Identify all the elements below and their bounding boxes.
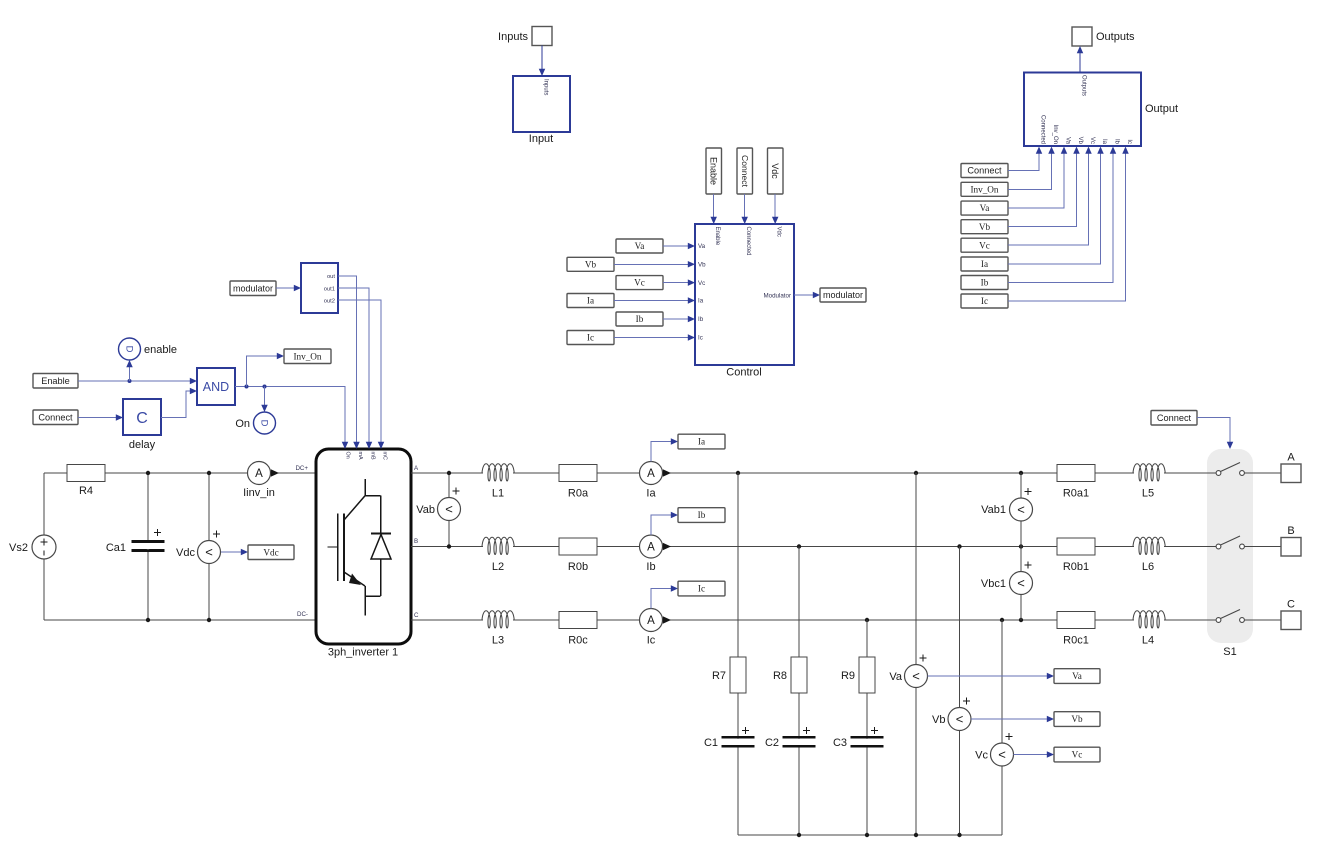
svg-text:<: <: [956, 712, 964, 727]
svg-text:<: <: [1017, 502, 1025, 517]
svg-text:<: <: [912, 669, 920, 684]
svg-text:Va: Va: [889, 671, 903, 683]
svg-text:C2: C2: [765, 737, 779, 749]
svg-text:Ib: Ib: [636, 314, 644, 324]
svg-text:<: <: [998, 747, 1006, 762]
svg-text:Vbc1: Vbc1: [981, 578, 1006, 590]
svg-text:A: A: [647, 468, 655, 480]
svg-text:R0b: R0b: [568, 561, 588, 573]
svg-text:Ib: Ib: [981, 278, 989, 288]
svg-text:R0c: R0c: [568, 635, 588, 647]
svg-text:Vb: Vb: [979, 222, 991, 232]
svg-text:Ib: Ib: [698, 316, 704, 323]
svg-text:Inputs: Inputs: [543, 79, 549, 95]
svg-text:Inputs: Inputs: [498, 31, 528, 43]
svg-text:Enable: Enable: [709, 157, 719, 185]
svg-text:Ia: Ia: [698, 437, 705, 447]
svg-text:out2: out2: [324, 299, 335, 305]
svg-text:Vab1: Vab1: [981, 504, 1006, 516]
svg-text:A: A: [647, 615, 655, 627]
svg-text:R0a1: R0a1: [1063, 488, 1089, 500]
svg-text:Va: Va: [698, 243, 706, 250]
svg-text:Enable: Enable: [41, 376, 70, 386]
svg-text:Vdc: Vdc: [775, 227, 781, 237]
svg-text:Vc: Vc: [979, 240, 990, 250]
svg-text:Ib: Ib: [646, 561, 655, 573]
svg-text:Vc: Vc: [634, 278, 645, 288]
svg-text:Ia: Ia: [1101, 139, 1107, 145]
svg-text:Control: Control: [726, 367, 761, 379]
svg-text:Ia: Ia: [981, 259, 988, 269]
svg-text:Vc: Vc: [975, 750, 988, 762]
svg-text:Connect: Connect: [1157, 413, 1192, 423]
svg-text:A: A: [255, 468, 263, 480]
svg-text:Ic: Ic: [698, 584, 705, 594]
svg-text:Vb: Vb: [1071, 714, 1083, 724]
svg-text:Vdc: Vdc: [770, 163, 780, 179]
svg-text:Connected: Connected: [1040, 115, 1046, 144]
svg-text:Ic: Ic: [1126, 139, 1132, 144]
svg-text:Connect: Connect: [967, 166, 1002, 176]
svg-text:Va: Va: [980, 203, 990, 213]
svg-text:Ic: Ic: [647, 635, 656, 647]
svg-text:Ca1: Ca1: [106, 542, 126, 554]
svg-text:mC: mC: [382, 452, 388, 460]
svg-text:out: out: [327, 274, 335, 280]
svg-text:mB: mB: [370, 452, 376, 460]
svg-text:3ph_inverter 1: 3ph_inverter 1: [328, 647, 398, 659]
svg-text:R8: R8: [773, 670, 787, 682]
svg-text:out1: out1: [324, 287, 335, 293]
svg-text:enable: enable: [144, 344, 177, 356]
svg-text:Va: Va: [1072, 671, 1082, 681]
svg-text:Connect: Connect: [38, 412, 73, 422]
svg-text:D: D: [258, 420, 269, 427]
svg-text:Vb: Vb: [585, 259, 597, 269]
svg-text:Input: Input: [529, 133, 553, 145]
svg-text:Ia: Ia: [646, 488, 656, 500]
svg-text:modulator: modulator: [233, 283, 273, 293]
svg-text:C: C: [1287, 599, 1295, 611]
svg-text:Output: Output: [1145, 103, 1178, 115]
svg-text:Ia: Ia: [698, 298, 704, 305]
svg-text:Vb: Vb: [932, 714, 945, 726]
svg-text:R0b1: R0b1: [1063, 561, 1089, 573]
svg-text:DC-: DC-: [297, 611, 308, 618]
svg-text:Vc: Vc: [1089, 137, 1095, 144]
svg-text:Vab: Vab: [416, 504, 435, 516]
svg-text:Va: Va: [1065, 137, 1071, 145]
svg-text:Outputs: Outputs: [1081, 75, 1087, 96]
svg-text:Outputs: Outputs: [1096, 31, 1135, 43]
svg-text:L6: L6: [1142, 561, 1154, 573]
svg-text:C: C: [136, 410, 148, 427]
svg-text:Ic: Ic: [587, 333, 594, 343]
svg-text:C: C: [414, 612, 419, 619]
svg-text:B: B: [1287, 525, 1294, 537]
svg-text:D: D: [123, 346, 134, 353]
svg-text:R9: R9: [841, 670, 855, 682]
svg-text:R0c1: R0c1: [1063, 635, 1089, 647]
svg-text:Iinv_in: Iinv_in: [243, 487, 275, 499]
svg-text:A: A: [647, 542, 655, 554]
svg-text:Vb: Vb: [1077, 137, 1083, 145]
svg-text:Inv_On: Inv_On: [1052, 125, 1058, 144]
svg-text:delay: delay: [129, 439, 156, 451]
svg-text:DC+: DC+: [295, 465, 308, 472]
svg-text:mA: mA: [357, 452, 363, 460]
svg-text:Connected: Connected: [745, 227, 751, 256]
svg-text:On: On: [345, 452, 351, 459]
svg-text:modulator: modulator: [823, 290, 863, 300]
svg-text:Ib: Ib: [1114, 139, 1120, 145]
svg-text:Va: Va: [635, 241, 645, 251]
svg-text:Vs2: Vs2: [9, 542, 28, 554]
svg-text:<: <: [205, 545, 213, 560]
svg-text:B: B: [414, 538, 418, 545]
svg-text:C3: C3: [833, 737, 847, 749]
svg-text:R4: R4: [79, 485, 93, 497]
svg-text:Ic: Ic: [698, 335, 703, 342]
svg-text:S1: S1: [1223, 646, 1236, 658]
svg-text:Modulator: Modulator: [763, 293, 791, 300]
svg-text:L1: L1: [492, 488, 504, 500]
svg-text:R0a: R0a: [568, 488, 589, 500]
svg-text:C1: C1: [704, 737, 718, 749]
svg-text:<: <: [445, 502, 453, 517]
svg-text:L2: L2: [492, 561, 504, 573]
svg-text:Vc: Vc: [1072, 750, 1083, 760]
svg-text:L5: L5: [1142, 488, 1154, 500]
svg-text:L4: L4: [1142, 635, 1154, 647]
svg-text:Vdc: Vdc: [263, 547, 278, 557]
svg-text:Connect: Connect: [740, 155, 750, 188]
svg-text:Vc: Vc: [698, 280, 705, 287]
svg-text:Ib: Ib: [698, 510, 706, 520]
svg-text:Enable: Enable: [714, 227, 720, 246]
svg-text:<: <: [1017, 576, 1025, 591]
svg-text:AND: AND: [203, 380, 229, 394]
svg-text:On: On: [235, 418, 250, 430]
svg-text:A: A: [1287, 452, 1295, 464]
svg-text:Vdc: Vdc: [176, 547, 195, 559]
svg-text:L3: L3: [492, 635, 504, 647]
svg-text:Inv_On: Inv_On: [293, 351, 321, 361]
svg-text:Ic: Ic: [981, 296, 988, 306]
svg-text:Inv_On: Inv_On: [970, 184, 998, 194]
svg-text:Ia: Ia: [587, 296, 594, 306]
svg-text:Vb: Vb: [698, 262, 706, 269]
svg-text:R7: R7: [712, 670, 726, 682]
